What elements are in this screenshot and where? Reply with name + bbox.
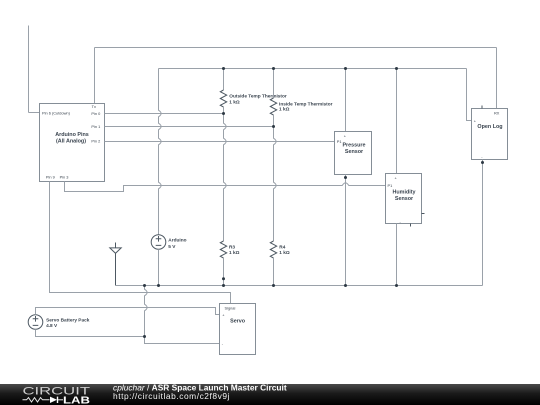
junction open log bottom	[481, 161, 484, 164]
wire humidity sensor top from 5V bus	[396, 69, 398, 174]
junction inside thermistor top	[272, 67, 275, 70]
svg-text:LAB: LAB	[63, 395, 90, 405]
svg-text:Pin 9: Pin 9	[46, 174, 55, 179]
svg-text:Pressure: Pressure	[342, 142, 365, 148]
svg-text:Servo Battery Pack: Servo Battery Pack	[46, 317, 90, 323]
resistor R3 1k	[220, 241, 226, 258]
svg-text:http://circuitlab.com/c2f8v9j: http://circuitlab.com/c2f8v9j	[113, 391, 230, 401]
wire 5V source to ground bus	[158, 249, 160, 285]
svg-text:Pin 6 (Cutdown): Pin 6 (Cutdown)	[42, 111, 71, 116]
svg-text:Arduino: Arduino	[168, 237, 186, 243]
wire battery plus to servo plus	[36, 308, 220, 315]
logo resistor squiggle and diode	[23, 398, 50, 402]
junction Pin1 node	[272, 125, 275, 128]
wire node down through hops to R3	[224, 114, 227, 242]
svg-text:5 V: 5 V	[168, 244, 176, 250]
svg-text:P1: P1	[337, 139, 342, 144]
junction 5V source at bus	[157, 284, 160, 287]
svg-text:1 kΩ: 1 kΩ	[279, 107, 290, 113]
component U1 Arduino Pins box	[40, 104, 105, 182]
resistor inside thermistor top wire	[273, 69, 275, 99]
junction R4 at bus	[272, 284, 275, 287]
svg-text:Sensor: Sensor	[345, 149, 364, 155]
footer banner	[0, 384, 540, 405]
node 5V bus horizontal	[159, 68, 467, 70]
svg-text:Tx: Tx	[92, 104, 96, 109]
battery V2 Servo Battery Pack 4.8 V	[28, 315, 43, 330]
svg-text:Pin 0: Pin 0	[91, 111, 101, 116]
wire cutdown vertical from top	[28, 26, 30, 113]
wire R4 to ground bus	[273, 258, 275, 286]
svg-text:Open Log: Open Log	[477, 124, 502, 130]
svg-text:RX: RX	[494, 110, 500, 115]
wire Pin 3 to humidity sensor with hop over pressure wire	[65, 182, 386, 192]
junction Pin0 node	[222, 112, 225, 115]
svg-text:Servo: Servo	[230, 318, 246, 324]
wire thermistor to Pin1 node	[273, 115, 275, 127]
wire R3 to ground bus	[223, 258, 225, 286]
pin stub open log top	[481, 106, 483, 109]
svg-text:Pin 1: Pin 1	[91, 124, 100, 129]
svg-text:Pin 2: Pin 2	[91, 139, 100, 144]
component servo box	[220, 304, 256, 355]
wire Pin 0 to thermistor node	[105, 113, 224, 115]
wire 5V bus drop to Open Log plus	[467, 69, 472, 121]
wire open log bottom to ground bus	[482, 160, 484, 286]
resistor inside temp thermistor 1k	[270, 98, 276, 115]
svg-text:4.8 V: 4.8 V	[46, 323, 58, 329]
op-amp none / voltage source V1 Arduino 5 V	[151, 235, 166, 250]
ground symbol	[110, 243, 121, 286]
pin stub humidity bottom tick	[410, 224, 412, 227]
svg-text:P1: P1	[388, 183, 393, 188]
svg-text:Outside Temp Thermistor: Outside Temp Thermistor	[229, 93, 287, 99]
junction battery minus node	[143, 335, 146, 338]
svg-text:Pin 3: Pin 3	[60, 174, 69, 179]
svg-text:Inside Temp Thermistor: Inside Temp Thermistor	[279, 102, 333, 108]
component open log box	[472, 109, 508, 160]
wire ground bus	[116, 285, 483, 287]
svg-text:1 kΩ: 1 kΩ	[229, 99, 240, 105]
wire pressure sensor bottom to ground bus	[345, 175, 347, 286]
wire battery minus to ground node	[36, 329, 145, 336]
wire thermistor to Pin0 node	[223, 107, 225, 114]
svg-text:Arduino Pins: Arduino Pins	[55, 132, 89, 138]
svg-text:R4: R4	[279, 244, 285, 250]
junction ground drop at bus	[143, 284, 146, 287]
junction humidity top	[395, 67, 398, 70]
junction R3 segment	[222, 277, 225, 280]
wire humidity sensor bottom to ground bus	[396, 224, 398, 286]
wire pressure sensor top from 5V bus	[345, 69, 347, 132]
junction outside thermistor top	[222, 67, 225, 70]
wire cutdown to Pin 6	[29, 112, 40, 114]
junction R3 at bus	[222, 284, 225, 287]
wire ground drop to servo minus with hops	[145, 286, 220, 344]
wire node down through hops to R4	[274, 127, 277, 242]
wire Pin 2 to pressure sensor	[105, 141, 335, 143]
wire Tx vertical	[94, 48, 96, 104]
wire 5V rail vertical with hops	[159, 69, 162, 235]
junction pressure at bus	[344, 284, 347, 287]
junction pressure top	[344, 67, 347, 70]
svg-text:Signal: Signal	[225, 306, 236, 311]
resistor R? outside temp thermistor 1k	[220, 90, 226, 107]
svg-text:R3: R3	[229, 244, 235, 250]
svg-text:1 kΩ: 1 kΩ	[229, 250, 240, 256]
wire Pin 9 to servo signal	[50, 182, 231, 304]
pin stub humidity right	[422, 213, 425, 215]
wire top Tx-Rx horizontal	[95, 47, 497, 49]
junction humidity at bus	[395, 284, 398, 287]
resistor outside temp thermistor top wire	[223, 69, 225, 91]
component pressure sensor box	[335, 132, 372, 175]
wire Rx drop to Open Log	[496, 48, 498, 109]
svg-text:1 kΩ: 1 kΩ	[279, 250, 290, 256]
junction pressure bottom	[344, 176, 347, 179]
svg-text:(All Analog): (All Analog)	[56, 139, 86, 145]
svg-text:Humidity: Humidity	[392, 189, 415, 195]
svg-text:Sensor: Sensor	[395, 196, 414, 202]
resistor R4 1k	[270, 241, 276, 258]
component humidity sensor box	[386, 174, 422, 224]
wire Pin 1 to inside thermistor node	[105, 126, 274, 128]
